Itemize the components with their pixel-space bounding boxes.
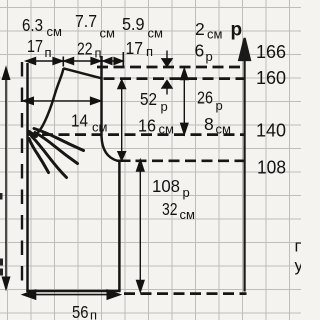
clipped fragment left 2: [0, 269, 3, 276]
label 6.3 cm: [22, 15, 62, 39]
row line 140: [42, 133, 244, 136]
svg-text:8: 8: [204, 114, 214, 134]
svg-text:р: р: [216, 98, 223, 113]
shoulder line: [63, 68, 101, 78]
decrease ray 3: [32, 136, 67, 178]
dimension 56 loops: [23, 290, 120, 299]
top dimension line: [26, 52, 123, 67]
svg-text:52: 52: [140, 89, 157, 109]
ray hub: [29, 132, 36, 136]
armhole line: [102, 56, 131, 161]
svg-text:п: п: [90, 308, 97, 320]
dimension 52 rows arrow: [118, 80, 126, 160]
svg-text:р: р: [161, 99, 168, 114]
svg-text:17: 17: [27, 36, 43, 56]
svg-text:32: 32: [162, 199, 178, 219]
svg-text:р: р: [206, 49, 213, 64]
decrease ray 2: [35, 133, 78, 164]
svg-text:56: 56: [72, 302, 89, 320]
svg-text:см: см: [148, 26, 164, 41]
svg-text:17: 17: [126, 38, 144, 58]
label 2 cm: [195, 19, 223, 42]
bottom edge: [26, 290, 120, 293]
svg-text:п: п: [45, 45, 52, 60]
svg-text:26: 26: [197, 88, 213, 108]
label 52 rows: [140, 89, 168, 114]
decrease ray 4: [29, 139, 49, 173]
dimension 14 cm: [23, 97, 100, 104]
side seam: [118, 161, 121, 291]
label 5.9 cm: [122, 14, 163, 41]
center front edge: [26, 63, 29, 292]
label 8 cm: [204, 114, 231, 137]
row line 160: [104, 77, 245, 80]
bottom extension dash line: [124, 292, 247, 295]
dimension 6 rows lower arrow: [162, 81, 172, 95]
svg-text:см: см: [180, 207, 196, 222]
svg-text:108: 108: [152, 176, 180, 196]
svg-text:п: п: [95, 46, 102, 61]
row line 166: [97, 66, 244, 69]
left total-height arrow: [3, 68, 10, 289]
label 108 rows: [152, 176, 190, 200]
svg-text:см: см: [100, 26, 116, 41]
svg-text:16: 16: [138, 116, 156, 136]
dimension 26 rows arrow: [181, 69, 188, 135]
label 32 cm: [162, 199, 195, 222]
label 56 loops: [72, 302, 97, 320]
svg-text:см: см: [207, 27, 223, 42]
neckline curve: [28, 68, 64, 134]
svg-text:2: 2: [195, 19, 205, 39]
svg-text:см: см: [216, 122, 232, 137]
dimension 108 rows arrow: [137, 160, 144, 292]
dimension 6 rows upper arrow: [162, 51, 172, 67]
label 6 rows: [195, 41, 213, 65]
decrease ray 1: [34, 129, 84, 151]
svg-text:см: см: [92, 120, 108, 135]
label 7.7 cm: [75, 11, 115, 41]
svg-text:7.7: 7.7: [75, 11, 97, 31]
label 17 loops (1): [27, 36, 52, 60]
svg-text:р: р: [231, 20, 243, 41]
svg-text:5.9: 5.9: [122, 14, 145, 34]
fold dash-line: [21, 62, 23, 286]
svg-text:п: п: [295, 237, 302, 256]
svg-text:см: см: [47, 24, 63, 39]
svg-text:п: п: [146, 44, 153, 59]
label 17 loops (2): [126, 38, 154, 59]
label 14 cm: [71, 111, 108, 135]
clipped fragment left 1: [0, 259, 3, 266]
label 22 loops: [77, 39, 102, 61]
rows axis: [239, 38, 250, 292]
clipped fragment left 0: [0, 193, 3, 200]
svg-text:166: 166: [256, 42, 286, 62]
svg-text:108: 108: [257, 158, 286, 178]
svg-text:6: 6: [195, 41, 205, 61]
svg-text:140: 140: [256, 121, 286, 141]
svg-text:14: 14: [71, 111, 88, 131]
svg-text:6.3: 6.3: [22, 15, 43, 35]
label 16 cm: [138, 116, 174, 137]
svg-text:22: 22: [77, 39, 93, 59]
svg-text:см: см: [159, 122, 175, 137]
svg-text:160: 160: [256, 68, 286, 88]
label 26 rows: [197, 88, 223, 114]
row line 108: [136, 159, 245, 162]
svg-text:у: у: [295, 256, 302, 275]
svg-text:р: р: [183, 185, 190, 200]
